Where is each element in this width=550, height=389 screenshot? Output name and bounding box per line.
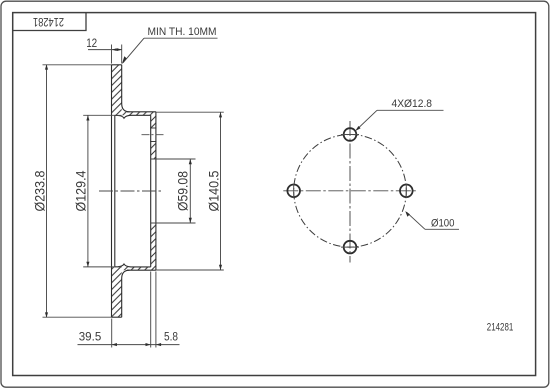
dia 59.08 bottom arrow [189, 218, 192, 223]
svg-text:Ø59.08: Ø59.08 [175, 171, 191, 211]
left bolt hole cross dash [293, 184, 295, 199]
dia 129.4 dim line [87, 115, 89, 267]
dia 233.8 bottom arrow [45, 312, 48, 317]
disc inner lip line [114, 115, 116, 267]
dia 140.5 top arrow [219, 112, 222, 117]
dim 12 line [88, 49, 122, 51]
bolt hole centerline in section [142, 134, 165, 136]
dia 140.5 bottom arrow [219, 265, 222, 270]
hub wall inner face [150, 115, 152, 267]
dim 39.5 left arrow [112, 343, 117, 346]
svg-text:Ø100: Ø100 [431, 218, 455, 230]
bottom bolt hole cross dash [341, 246, 359, 248]
horizontal centerline [283, 190, 416, 192]
bolt hole top edge in wall [150, 127, 156, 129]
4X dia 12.8 arrow [355, 126, 360, 131]
svg-text:12: 12 [86, 38, 97, 50]
dim 12 left arrow [112, 48, 117, 51]
dia 59.08 top arrow [189, 159, 192, 164]
dim 5.8 outside arrow [156, 343, 161, 346]
bottom dims ext line wall inner [150, 272, 152, 348]
bottom dims ext line wall outer [155, 272, 157, 348]
svg-text:214281: 214281 [487, 322, 514, 334]
center hole top edge / ext line [151, 158, 196, 160]
hat top outer surface [127, 111, 156, 113]
dia 140.5 top ext line [156, 111, 224, 113]
main horizontal centerline [99, 190, 161, 192]
svg-text:39.5: 39.5 [79, 331, 102, 343]
hatch fill disc top section [112, 65, 122, 116]
bolt hole bottom edge in wall [150, 141, 156, 143]
hat bottom inner surface with relief groove [115, 264, 151, 267]
svg-text:5.8: 5.8 [164, 331, 178, 343]
MIN TH leader underline [144, 37, 218, 39]
dia 140.5 dim line [220, 112, 222, 270]
bottom bolt hole [344, 241, 357, 254]
dia 129.4 bottom ext line [83, 266, 122, 268]
dia 233.8 top ext line [43, 64, 112, 66]
dia 140.5 bottom ext line [156, 269, 224, 271]
bottom dims ext line disc left [111, 319, 113, 348]
dim 12 right arrow [117, 48, 122, 51]
hatch fill hub wall bottom segment [151, 223, 156, 270]
left bolt hole [287, 185, 300, 198]
svg-text:Ø233.8: Ø233.8 [31, 170, 47, 211]
hat top inner surface with relief groove [115, 115, 151, 118]
svg-text:Ø129.4: Ø129.4 [73, 170, 89, 211]
dim 12 ext lines [111, 45, 113, 64]
dia 129.4 bottom arrow [86, 262, 89, 267]
hatch fill hub wall top segment [151, 112, 156, 128]
dim 39.5 right arrow [146, 343, 151, 346]
MIN TH leader diagonal [123, 38, 144, 63]
disc right face top [122, 65, 130, 112]
vertical centerline [349, 121, 351, 263]
right bolt hole cross dash [405, 184, 407, 199]
disc top edge [112, 64, 122, 66]
dia 129.4 top ext line [83, 114, 122, 116]
disc outer left face [111, 65, 113, 317]
dia 100 underline [425, 228, 459, 230]
top bolt hole [344, 128, 357, 141]
dia 233.8 dim line [46, 65, 48, 317]
bottom dim line [78, 344, 180, 346]
center hole bottom edge / ext line [151, 222, 196, 224]
svg-text:MIN TH. 10MM: MIN TH. 10MM [148, 26, 217, 38]
svg-text:4XØ12.8: 4XØ12.8 [392, 98, 433, 110]
svg-text:Ø140.5: Ø140.5 [205, 170, 221, 211]
right bolt hole [400, 185, 413, 198]
4X dia 12.8 leader [357, 110, 378, 130]
hub wall outer face [155, 112, 157, 270]
bolt circle dia 100 chain circle [294, 135, 407, 248]
dia 233.8 top arrow [45, 64, 48, 69]
top bolt hole cross dash [341, 134, 359, 136]
hatch fill hat bottom strip [122, 267, 151, 271]
title box top-left [13, 13, 86, 31]
MIN TH leader arrow [122, 56, 127, 64]
dia 129.4 top arrow [86, 115, 89, 120]
hatch fill disc bottom section [112, 267, 122, 318]
svg-text:214281: 214281 [33, 15, 64, 27]
dia 233.8 bottom ext line [43, 316, 112, 318]
dia 59.08 dim line [189, 159, 191, 223]
hatch fill hub wall mid segment [151, 142, 156, 160]
dia 100 arrow [405, 211, 410, 217]
disc right face bottom [122, 270, 130, 317]
4X dia 12.8 underline [377, 109, 444, 111]
hat bottom outer surface [127, 269, 156, 271]
dia 100 leader [407, 212, 426, 229]
hatch fill hat top strip [122, 112, 151, 116]
disc bottom edge [112, 316, 122, 318]
